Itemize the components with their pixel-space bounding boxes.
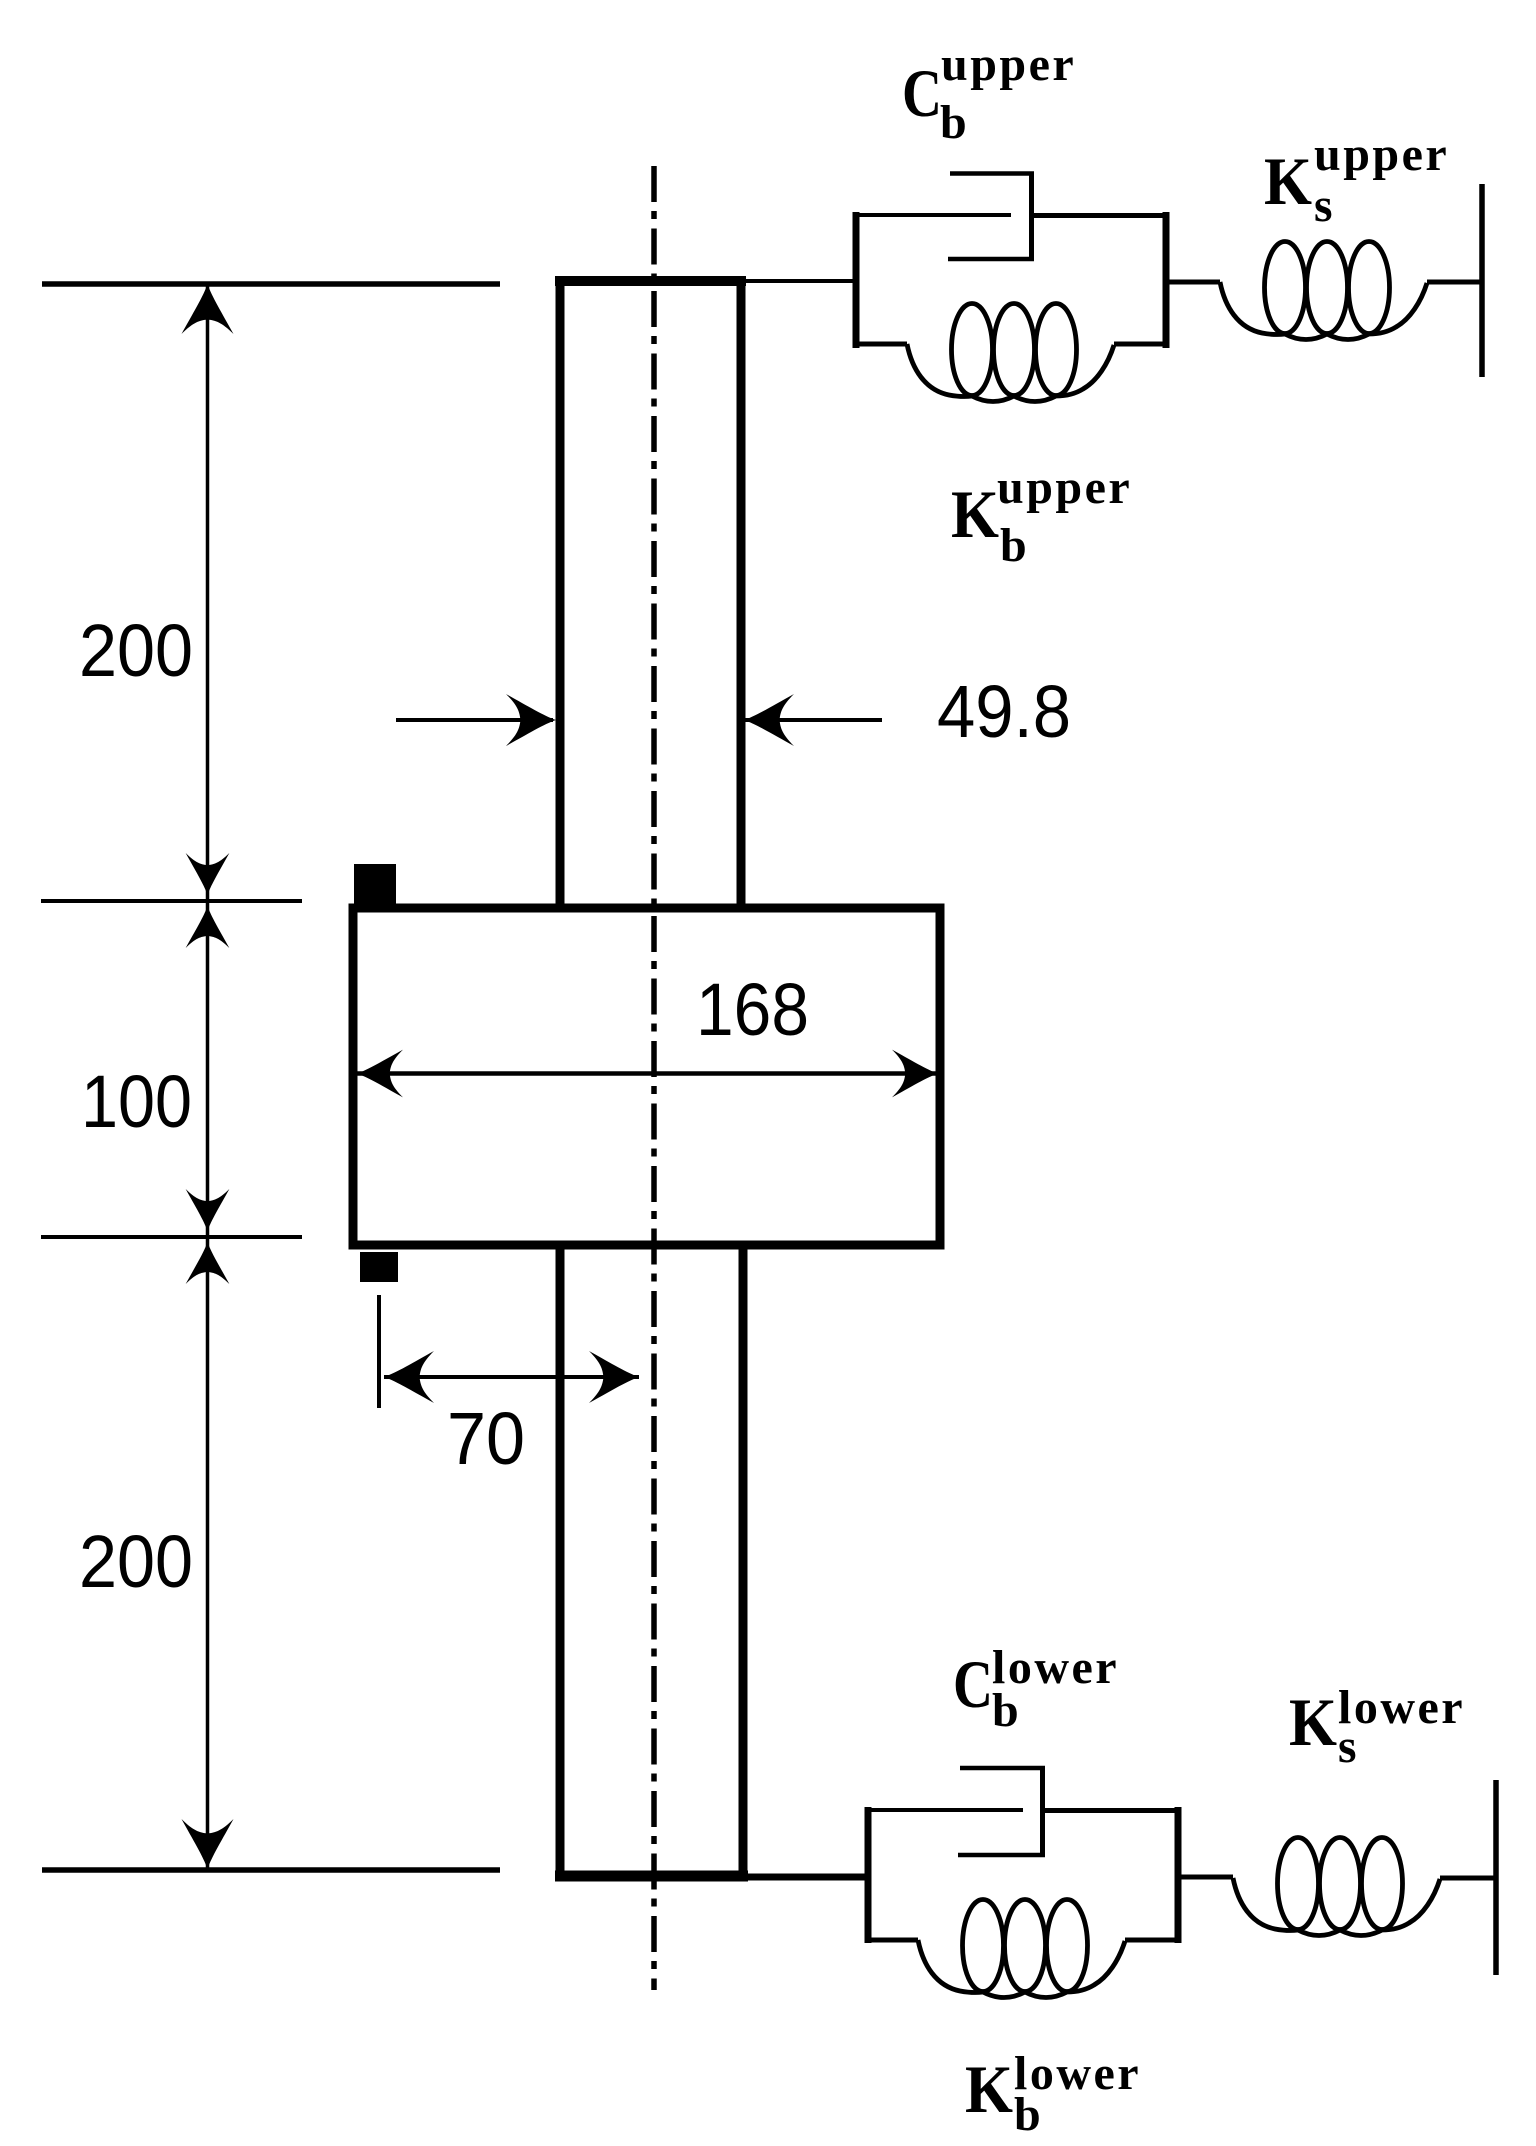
arrow up below mid upper ext xyxy=(186,906,230,948)
damper Cb lower cup top xyxy=(960,1766,1045,1771)
dim 70 left arrow xyxy=(384,1351,434,1403)
wire upper box to Ks spring xyxy=(1166,280,1220,285)
svg-text:s: s xyxy=(1338,1720,1359,1773)
shaft top edge xyxy=(555,276,746,286)
arrow up below mid lower ext xyxy=(186,1242,230,1284)
arrow down at mid lower ext xyxy=(186,1189,230,1231)
svg-text:upper: upper xyxy=(1314,128,1449,181)
extension line mid lower xyxy=(41,1235,302,1239)
wire lower box to Ks spring xyxy=(1178,1875,1233,1880)
wire Ks lower to wall xyxy=(1440,1876,1496,1881)
dim 49.8 right line xyxy=(744,718,882,722)
arrow down at bottom ext xyxy=(182,1819,234,1869)
svg-text:K: K xyxy=(951,476,999,552)
lower box bottom rail right xyxy=(1125,1938,1181,1943)
damper Cb upper cup top xyxy=(950,171,1034,176)
dim 70 extension tick xyxy=(377,1295,381,1408)
lower box top rail right xyxy=(1043,1808,1179,1813)
dim 168 line xyxy=(357,1071,938,1076)
svg-text:K: K xyxy=(965,2051,1013,2127)
svg-text:s: s xyxy=(1314,179,1335,232)
wire shaft to lower bearing box xyxy=(748,1874,868,1881)
upper box bottom rail right xyxy=(1114,342,1169,347)
lower box left vertical xyxy=(865,1807,872,1943)
svg-text:b: b xyxy=(1000,519,1029,572)
svg-text:K: K xyxy=(1289,1684,1337,1760)
extension line top xyxy=(42,281,500,287)
spring Kb lower xyxy=(918,1900,1125,1998)
svg-text:168: 168 xyxy=(696,968,809,1051)
lower box bottom rail left xyxy=(865,1938,918,1943)
dim 168 left arrow xyxy=(357,1050,403,1098)
damper Cb lower cup right wall xyxy=(1040,1766,1045,1855)
damper Cb upper cup right wall xyxy=(1029,172,1034,260)
dim 49.8 left line xyxy=(396,718,553,722)
upper box bottom rail left xyxy=(853,342,907,347)
svg-text:upper: upper xyxy=(997,461,1132,514)
arrow down at mid upper ext xyxy=(186,853,230,895)
damper Cb lower cup bottom xyxy=(958,1853,1045,1858)
damper Cb upper cup bottom xyxy=(948,257,1034,262)
spring Kb upper xyxy=(907,304,1114,402)
dim 70 line xyxy=(384,1375,639,1379)
dim 49.8 left arrow (points right) xyxy=(506,694,556,746)
upper wall (ground) xyxy=(1479,184,1485,377)
upper shaft right edge xyxy=(737,281,746,909)
upper box left vertical xyxy=(853,212,860,348)
svg-text:C: C xyxy=(902,55,942,131)
upper box top rail right xyxy=(1032,213,1167,218)
svg-text:70: 70 xyxy=(447,1397,525,1480)
svg-text:b: b xyxy=(940,96,969,149)
lower shaft left edge xyxy=(556,1245,565,1876)
lower wall (ground) xyxy=(1493,1780,1499,1975)
sensor square upper xyxy=(354,864,396,905)
svg-text:b: b xyxy=(1014,2088,1043,2141)
lower box right vertical xyxy=(1175,1807,1182,1943)
svg-text:200: 200 xyxy=(79,609,193,692)
upper shaft left edge xyxy=(556,281,565,909)
spring Ks lower xyxy=(1233,1838,1440,1936)
dim 49.8 right arrow (points left) xyxy=(744,694,794,746)
spring Ks upper xyxy=(1220,242,1427,340)
lower shaft right edge xyxy=(739,1245,748,1876)
svg-text:200: 200 xyxy=(79,1520,193,1603)
svg-text:upper: upper xyxy=(941,38,1076,91)
svg-text:b: b xyxy=(992,1684,1021,1737)
extension line bottom xyxy=(42,1867,500,1873)
extension line mid upper xyxy=(41,899,302,903)
arrow up at top ext xyxy=(182,284,234,334)
sensor square lower xyxy=(360,1252,398,1282)
shaft bottom edge xyxy=(555,1871,748,1882)
upper box right vertical xyxy=(1163,212,1170,348)
dim 168 right arrow xyxy=(892,1050,938,1098)
svg-text:49.8: 49.8 xyxy=(937,670,1071,753)
centerline (shaft axis, dash-dot) xyxy=(651,166,657,1990)
dim 70 right arrow xyxy=(589,1351,639,1403)
svg-text:C: C xyxy=(953,1646,993,1722)
damper Cb lower piston rod xyxy=(865,1808,1023,1812)
wire shaft to upper bearing box xyxy=(746,279,856,283)
wire Ks upper to wall xyxy=(1427,280,1482,285)
disk (rotor) outline xyxy=(353,908,940,1245)
svg-text:100: 100 xyxy=(81,1060,192,1143)
svg-text:K: K xyxy=(1264,143,1312,219)
damper Cb upper piston rod xyxy=(853,213,1011,217)
dim line vertical chain xyxy=(206,284,210,1870)
